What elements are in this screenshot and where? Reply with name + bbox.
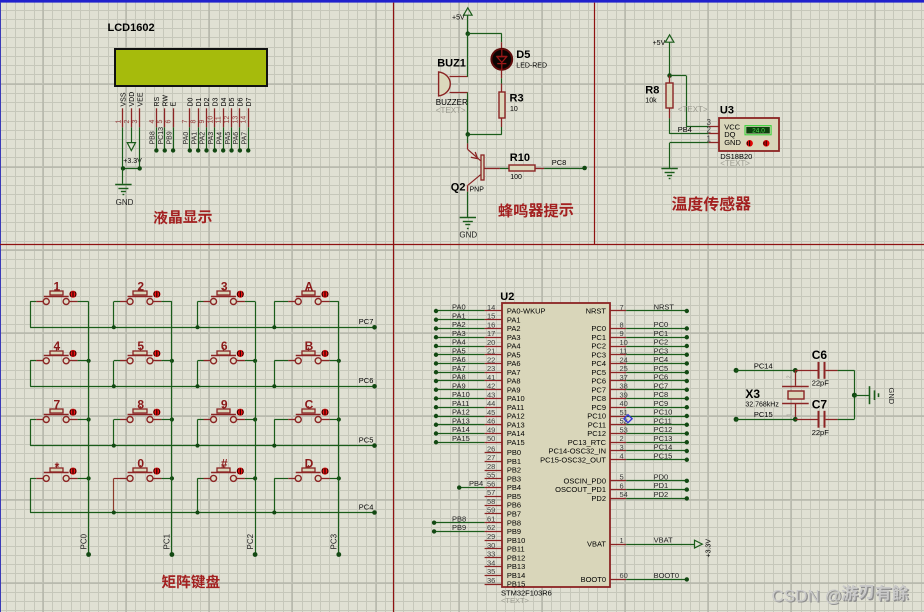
node PA0 [188, 148, 192, 152]
node PB4 [457, 485, 461, 489]
svg-text:PA1: PA1 [452, 311, 466, 320]
wire button 8 left [120, 419, 127, 421]
wire PC9 [626, 407, 687, 409]
svg-text:LCD1602: LCD1602 [108, 22, 155, 34]
U2 pin PC10 (51) [611, 416, 627, 418]
svg-text:27: 27 [487, 453, 495, 462]
svg-text:PC14-OSC32_IN: PC14-OSC32_IN [548, 447, 606, 456]
svg-text:X3: X3 [745, 387, 760, 401]
node BOOT0 [685, 577, 689, 581]
svg-text:PC12: PC12 [654, 425, 673, 434]
svg-text:61: 61 [487, 514, 495, 523]
node PA3 [434, 335, 438, 339]
column wire PC0 [88, 302, 90, 555]
svg-text:PA13: PA13 [507, 420, 525, 429]
node PA1 [434, 318, 438, 322]
svg-text:PB3: PB3 [507, 474, 521, 483]
svg-text:VBAT: VBAT [654, 536, 673, 545]
svg-text:1: 1 [620, 536, 624, 545]
svg-text:RS: RS [154, 96, 161, 106]
junction +5V [466, 31, 471, 36]
U2 pin PB1 (27) [485, 461, 502, 463]
wire button 8 right [153, 419, 161, 421]
wire PD1 [626, 489, 687, 491]
wire PC1 [626, 337, 687, 339]
junction column PC2 row 3 [253, 417, 257, 421]
svg-text:VBAT: VBAT [587, 540, 606, 549]
svg-text:58: 58 [487, 497, 495, 506]
U2 pin PC15-OSC32_OUT (4) [611, 459, 627, 461]
U2 pin PB15 (36) [485, 584, 502, 586]
svg-text:PD0: PD0 [654, 472, 669, 481]
wire PC2 [626, 346, 687, 348]
wire PA11 [436, 407, 485, 409]
svg-text:PA0-WKUP: PA0-WKUP [507, 307, 546, 316]
svg-text:D2: D2 [204, 97, 211, 106]
U2 pin PA7 (23) [485, 372, 502, 374]
wire PA7 [436, 372, 485, 374]
node PC6 [685, 379, 689, 383]
svg-text:U3: U3 [720, 105, 734, 117]
svg-text:PA7: PA7 [241, 132, 248, 145]
node PA0 [434, 309, 438, 313]
junction X3 top [793, 368, 798, 373]
svg-text:<TEXT>: <TEXT> [720, 159, 750, 168]
U2 pin PB13 (34) [485, 566, 502, 568]
U2 pin PC13_RTC (2) [611, 442, 627, 444]
wire button # right [237, 478, 245, 480]
svg-text:D5: D5 [229, 97, 236, 106]
node PA10 [434, 396, 438, 400]
svg-text:PB8: PB8 [150, 131, 157, 144]
svg-text:PA1: PA1 [191, 132, 198, 145]
node PA9 [434, 388, 438, 392]
svg-text:1: 1 [707, 134, 712, 143]
svg-text:8: 8 [620, 320, 624, 329]
svg-text:+5V: +5V [653, 40, 666, 47]
LCD1602 display body [115, 49, 267, 86]
svg-text:PA0: PA0 [452, 303, 466, 312]
U2 pin PC6 (37) [611, 380, 627, 382]
svg-text:44: 44 [487, 399, 495, 408]
svg-text:GND: GND [116, 198, 134, 207]
wire button 7 right [69, 419, 77, 421]
svg-text:32.768kHz: 32.768kHz [745, 401, 779, 408]
node PC7 [372, 325, 377, 330]
ground crystal (rotated) [854, 395, 869, 397]
svg-text:PA2: PA2 [507, 324, 521, 333]
svg-text:PB11: PB11 [507, 545, 525, 554]
U2 pin PA14 (49) [485, 433, 502, 435]
svg-text:PC11: PC11 [654, 416, 672, 425]
sheet left edge [0, 3, 1, 612]
wire to ground [122, 168, 124, 183]
svg-text:PA11: PA11 [452, 399, 469, 408]
U2 pin PA6 (22) [485, 363, 502, 365]
node PA2 [204, 148, 208, 152]
wire button 5 left [120, 360, 127, 362]
node PC8 [582, 166, 587, 171]
U2 pin PC14-OSC32_IN (3) [611, 450, 627, 452]
wire button C right [321, 419, 329, 421]
node PA12 [434, 414, 438, 418]
svg-text:24.0: 24.0 [752, 128, 765, 135]
section divider vertical x594 [594, 3, 596, 244]
svg-text:BOOT0: BOOT0 [581, 575, 606, 584]
svg-text:33: 33 [487, 550, 495, 559]
wire button C left [288, 419, 295, 421]
svg-text:PB10: PB10 [507, 536, 525, 545]
U2 pin PB0 (26) [485, 452, 502, 454]
wire button D right [321, 478, 329, 480]
wire button A left [288, 301, 295, 303]
row bus PC7 [30, 327, 374, 329]
svg-text:E: E [171, 102, 178, 107]
wire PB4 [459, 487, 484, 489]
svg-text:BOOT0: BOOT0 [654, 571, 679, 580]
svg-text:<TEXT>: <TEXT> [436, 106, 466, 115]
wire button 9 left [204, 419, 211, 421]
svg-text:1: 1 [115, 120, 122, 124]
wire PA4 [436, 346, 485, 348]
svg-text:PB9: PB9 [507, 527, 521, 536]
svg-text:26: 26 [487, 444, 495, 453]
row bus PC5 [30, 445, 374, 447]
svg-text:2: 2 [707, 125, 712, 134]
section divider horizontal mid [0, 244, 924, 246]
node PD2 [685, 496, 689, 500]
node PA6 [434, 361, 438, 365]
U2 pin PA9 (42) [485, 389, 502, 391]
svg-text:PB0: PB0 [507, 448, 521, 457]
ground LCD [115, 184, 131, 186]
svg-text:CSDN @: CSDN @ [772, 586, 842, 605]
U2 pin PC4 (24) [611, 363, 627, 365]
svg-text:VDD: VDD [129, 92, 136, 107]
svg-text:PB6: PB6 [507, 501, 521, 510]
LED D5 [501, 42, 503, 49]
node PA7 [246, 148, 250, 152]
svg-text:PB7: PB7 [507, 509, 521, 518]
node PC0 [685, 326, 689, 330]
wire R8 to DQ (PB4) [669, 118, 671, 133]
svg-text:PA5: PA5 [452, 346, 466, 355]
node PA7 [434, 370, 438, 374]
svg-text:LED-RED: LED-RED [516, 62, 547, 69]
svg-text:PA1: PA1 [507, 315, 521, 324]
U2 pin BOOT0 (60) [611, 579, 627, 581]
node PC3 [685, 353, 689, 357]
sheet top border [0, 0, 924, 3]
junction bus PC5 col2 [112, 444, 116, 448]
junction column PC0 row 4 [87, 476, 91, 480]
wire PA6 [436, 363, 485, 365]
node NRST [685, 309, 689, 313]
svg-text:BUZ1: BUZ1 [437, 58, 466, 70]
svg-text:10: 10 [620, 338, 628, 347]
svg-text:PB1: PB1 [507, 457, 521, 466]
svg-text:PC8: PC8 [552, 158, 567, 167]
wire base to R10 [500, 168, 509, 170]
svg-text:PC3: PC3 [330, 533, 339, 549]
svg-text:PA10: PA10 [507, 394, 525, 403]
svg-text:PA15: PA15 [452, 434, 470, 443]
svg-text:54: 54 [620, 490, 628, 499]
mouse cursor diamond [624, 415, 632, 423]
junction buzzer/R3 [466, 132, 471, 137]
svg-text:36: 36 [487, 576, 495, 585]
svg-text:15: 15 [487, 312, 495, 321]
junction gnd branch [852, 393, 857, 398]
node PC12 [685, 431, 689, 435]
node PA15 [434, 440, 438, 444]
U2 pin PA11 (44) [485, 407, 502, 409]
svg-text:PA4: PA4 [452, 338, 466, 347]
svg-text:D7: D7 [246, 97, 253, 106]
junction bus PC7 col2 [112, 325, 116, 329]
wire button 2 right [153, 301, 161, 303]
node PC2 [253, 552, 258, 557]
svg-text:PC9: PC9 [654, 399, 669, 408]
svg-text:PC1: PC1 [654, 329, 669, 338]
junction VEE [138, 166, 142, 170]
svg-text:PB9: PB9 [166, 131, 173, 144]
svg-text:10k: 10k [645, 98, 657, 105]
wire PC15 [626, 459, 687, 461]
svg-text:62: 62 [487, 523, 495, 532]
wire VSS-VEE join [123, 168, 140, 170]
U2 pin PA0 (14) [485, 310, 502, 312]
svg-text:PC15: PC15 [654, 451, 673, 460]
wire PD2 [626, 498, 687, 500]
power +3.3V on VDD pin2 [131, 127, 133, 142]
svg-text:PC5: PC5 [359, 435, 374, 444]
U2 pin PA10 (43) [485, 398, 502, 400]
svg-text:PC6: PC6 [591, 377, 606, 386]
wire PC12 [626, 433, 687, 435]
svg-text:PA3: PA3 [507, 333, 521, 342]
wire VSS pin1 down [122, 127, 124, 168]
node PC13 [163, 148, 167, 152]
node PC8 [685, 396, 689, 400]
junction bus PC7 col3 [196, 325, 200, 329]
U2 pin NRST (7) [611, 310, 627, 312]
svg-text:11: 11 [620, 347, 628, 356]
svg-text:PB4: PB4 [678, 125, 692, 134]
svg-text:4: 4 [620, 452, 624, 461]
svg-text:PC2: PC2 [591, 342, 606, 351]
U2 pin PB11 (30) [485, 548, 502, 550]
U2 pin PB4 (56) [485, 487, 502, 489]
section divider vertical x393 [393, 3, 395, 612]
svg-text:46: 46 [487, 417, 495, 426]
wire PB9 [434, 531, 485, 533]
svg-text:45: 45 [487, 408, 495, 417]
node PA5 [229, 148, 233, 152]
wire button 4 right [69, 360, 77, 362]
wire PC0 [626, 328, 687, 330]
node PB8 [432, 520, 436, 524]
U2 pin PC0 (8) [611, 328, 627, 330]
svg-text:PB14: PB14 [507, 571, 525, 580]
svg-text:25: 25 [620, 364, 628, 373]
svg-text:10: 10 [510, 106, 518, 113]
svg-text:NRST: NRST [654, 303, 675, 312]
svg-text:3: 3 [620, 443, 624, 452]
wire button 5 right [153, 360, 161, 362]
svg-text:R10: R10 [510, 152, 530, 164]
svg-text:35: 35 [487, 567, 495, 576]
wire PC13 [626, 442, 687, 444]
svg-text:PC10: PC10 [587, 412, 606, 421]
junction column PC0 row 2 [87, 359, 91, 363]
svg-text:D6: D6 [238, 97, 245, 106]
svg-text:D0: D0 [187, 97, 194, 106]
node PA4 [221, 148, 225, 152]
U2 pin OSCOUT_PD1 (6) [611, 489, 627, 491]
U2 pin PD2 (54) [611, 498, 627, 500]
junction R8 top [667, 73, 672, 78]
svg-text:PA5: PA5 [507, 350, 521, 359]
svg-text:PA2: PA2 [200, 132, 207, 145]
svg-text:41: 41 [487, 373, 495, 382]
wire PC10 [626, 416, 687, 418]
transistor Q2 [467, 134, 469, 143]
svg-text:C7: C7 [812, 397, 828, 411]
svg-text:PA3: PA3 [208, 132, 215, 145]
wire button 7 left [36, 419, 43, 421]
svg-text:PC3: PC3 [591, 350, 606, 359]
svg-text:57: 57 [487, 488, 495, 497]
ground Q2 [460, 217, 476, 219]
wire PD0 [626, 480, 687, 482]
svg-text:22pF: 22pF [812, 428, 830, 437]
wire button 6 right [237, 360, 245, 362]
U2 pin PA12 (45) [485, 416, 502, 418]
wire PA13 [436, 424, 485, 426]
svg-text:D3: D3 [212, 97, 219, 106]
svg-text:PA7: PA7 [507, 368, 521, 377]
svg-text:4: 4 [149, 120, 156, 124]
svg-text:PB4: PB4 [507, 483, 521, 492]
column wire PC2 [255, 302, 257, 555]
svg-text:40: 40 [620, 399, 628, 408]
node PA11 [434, 405, 438, 409]
node PA5 [434, 353, 438, 357]
node PA13 [434, 423, 438, 427]
node PC1 [685, 335, 689, 339]
U2 pin PB6 (58) [485, 505, 502, 507]
node PC4 [685, 361, 689, 365]
U2 pin PC11 (52) [611, 424, 627, 426]
node PD0 [685, 479, 689, 483]
U2 pin PB8 (61) [485, 522, 502, 524]
U2 pin PC3 (11) [611, 354, 627, 356]
wire VBAT [626, 544, 694, 546]
node PC10 [685, 414, 689, 418]
node PC15 [685, 458, 689, 462]
U2 pin VBAT (1) [611, 544, 627, 546]
svg-text:PA0: PA0 [183, 132, 190, 145]
wire button 1 left [36, 301, 43, 303]
svg-text:16: 16 [487, 320, 495, 329]
power +5V sensor [665, 35, 674, 42]
svg-text:2: 2 [620, 434, 624, 443]
wire R3 to junction [468, 134, 502, 136]
node PC13 [685, 440, 689, 444]
svg-text:PA4: PA4 [216, 132, 223, 145]
svg-text:VEE: VEE [137, 92, 144, 106]
U2 pin PC9 (40) [611, 407, 627, 409]
svg-text:PA9: PA9 [452, 381, 466, 390]
svg-text:+5V: +5V [452, 14, 465, 21]
wire R10 to PC8 [544, 168, 585, 170]
svg-text:PC0: PC0 [591, 324, 606, 333]
svg-text:13: 13 [232, 116, 239, 124]
junction bus PC6 col4 [272, 384, 276, 388]
svg-text:PD1: PD1 [654, 481, 669, 490]
wire PA14 [436, 433, 485, 435]
svg-text:VSS: VSS [121, 92, 128, 106]
junction column PC3 row 3 [337, 417, 341, 421]
wire button B right [321, 360, 329, 362]
wire PA8 [436, 380, 485, 382]
wire button D left [288, 478, 295, 480]
junction column PC3 row 2 [337, 359, 341, 363]
svg-text:9: 9 [199, 120, 206, 124]
ground DS18B20 [661, 168, 677, 170]
U2 pin PB2 (28) [485, 470, 502, 472]
junction bus PC4 col2 [112, 511, 116, 515]
svg-text:PC2: PC2 [246, 533, 255, 549]
svg-text:PD2: PD2 [591, 494, 606, 503]
junction bus PC4 col4 [272, 511, 276, 515]
wire PA15 [436, 442, 485, 444]
svg-text:GND: GND [887, 388, 896, 405]
svg-text:RW: RW [162, 95, 169, 107]
junction column PC3 row 4 [337, 476, 341, 480]
wire button 1 right [69, 301, 77, 303]
svg-text:PA8: PA8 [452, 373, 466, 382]
svg-text:PA9: PA9 [507, 385, 521, 394]
svg-text:+3.3V: +3.3V [706, 539, 713, 558]
svg-text:56: 56 [487, 479, 495, 488]
section title 矩阵键盘 [162, 575, 176, 589]
wire buzzer to junction [467, 93, 469, 135]
svg-text:PB13: PB13 [507, 562, 525, 571]
column wire PC3 [338, 302, 340, 555]
node PC14 [685, 449, 689, 453]
wire button * left [36, 478, 43, 480]
svg-text:PA14: PA14 [452, 425, 470, 434]
wire PA1 [436, 319, 485, 321]
svg-text:PC0: PC0 [79, 533, 88, 549]
U2 pin PB14 (35) [485, 575, 502, 577]
wire button B left [288, 360, 295, 362]
U3 adjust buttons [746, 140, 753, 147]
svg-text:12: 12 [224, 116, 231, 124]
junction column PC2 row 4 [253, 476, 257, 480]
U3 temperature display 24.0 [745, 126, 771, 135]
node PA8 [434, 379, 438, 383]
svg-text:PC7: PC7 [359, 317, 374, 326]
U2 pin PA8 (41) [485, 380, 502, 382]
node PC3 [336, 552, 341, 557]
wire +5V down to buzzer [467, 34, 469, 77]
svg-text:PC0: PC0 [654, 320, 669, 329]
svg-text:28: 28 [487, 462, 495, 471]
wire C6 to gnd [838, 370, 855, 372]
